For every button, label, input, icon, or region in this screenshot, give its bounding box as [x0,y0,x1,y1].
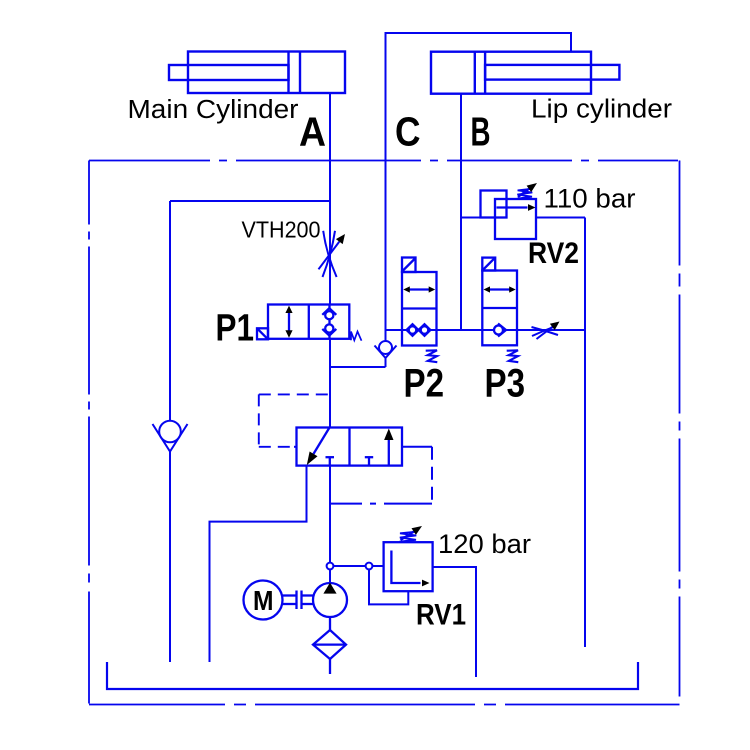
svg-text:M: M [253,585,274,616]
svg-text:P3: P3 [485,362,526,406]
svg-text:C: C [395,108,421,154]
svg-text:120 bar: 120 bar [438,529,531,559]
svg-text:RV1: RV1 [416,599,466,632]
svg-text:RV2: RV2 [528,237,579,270]
svg-text:110 bar: 110 bar [544,184,636,214]
svg-text:P1: P1 [216,308,255,350]
svg-text:A: A [299,108,326,154]
svg-text:P2: P2 [404,362,445,406]
svg-text:Main Cylinder: Main Cylinder [128,96,300,124]
svg-text:B: B [471,108,491,154]
svg-text:VTH200: VTH200 [242,217,321,243]
svg-text:Lip cylinder: Lip cylinder [531,95,673,123]
